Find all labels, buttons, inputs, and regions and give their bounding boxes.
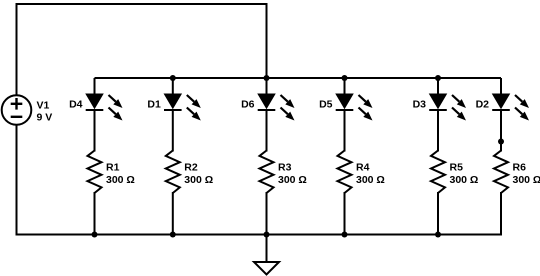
svg-text:D4: D4 [69, 99, 83, 111]
svg-text:D1: D1 [147, 99, 161, 111]
LED D3 [429, 94, 466, 121]
voltage source V1 [2, 95, 32, 125]
wire D6 anode lead [266, 78, 268, 95]
wire R1 bottom lead [94, 192, 96, 236]
wire R3 bottom lead [266, 192, 268, 236]
svg-text:300 Ω: 300 Ω [106, 174, 135, 186]
LED D1 [164, 94, 201, 121]
junction bottom bus x=438.0 [435, 232, 441, 238]
wire D3 cathode to R5 [437, 110, 439, 152]
wire center vertical drop [266, 3, 268, 78]
wire D1 cathode to R2 [172, 110, 174, 152]
resistor R6 [494, 151, 508, 194]
svg-text:9 V: 9 V [37, 112, 53, 124]
svg-text:R4: R4 [356, 162, 370, 174]
wire top bus [95, 77, 502, 79]
svg-text:300 Ω: 300 Ω [184, 174, 213, 186]
wire ground stem [266, 235, 268, 263]
LED D6 [258, 94, 295, 121]
svg-text:R5: R5 [450, 162, 464, 174]
svg-text:D3: D3 [413, 99, 427, 111]
svg-text:R6: R6 [513, 162, 527, 174]
svg-text:R3: R3 [278, 162, 292, 174]
resistor R3 [260, 151, 274, 194]
svg-text:R1: R1 [106, 162, 120, 174]
svg-text:D2: D2 [476, 99, 490, 111]
wire R4 bottom lead [344, 192, 346, 236]
LED D5 [336, 94, 373, 121]
junction bottom bus x=266.5 [264, 232, 270, 238]
wire D2 anode lead [500, 78, 502, 95]
wire D4 cathode to R1 [94, 110, 96, 152]
svg-text:D5: D5 [319, 99, 333, 111]
svg-text:300 Ω: 300 Ω [450, 174, 479, 186]
junction top bus x=172.8 [170, 75, 176, 81]
wire R5 bottom lead [437, 192, 439, 236]
wire D5 anode lead [344, 78, 346, 95]
LED D4 [86, 94, 123, 121]
svg-text:300 Ω: 300 Ω [513, 174, 540, 186]
resistor R4 [338, 151, 352, 194]
junction bottom bus x=344.5 [342, 232, 348, 238]
junction top bus x=438.0 [435, 75, 441, 81]
svg-text:R2: R2 [184, 162, 198, 174]
junction bottom bus x=172.8 [170, 232, 176, 238]
resistor R5 [431, 151, 445, 194]
wire D6 cathode to R3 [266, 110, 268, 152]
svg-text:300 Ω: 300 Ω [278, 174, 307, 186]
junction bottom bus x=94.5 [92, 232, 98, 238]
wire R6 bottom lead [500, 192, 502, 236]
wire D2 cathode to R6 [500, 110, 502, 152]
junction top bus x=344.5 [342, 75, 348, 81]
wire D5 cathode to R4 [344, 110, 346, 152]
wire R2 bottom lead [172, 192, 174, 236]
resistor R2 [166, 151, 180, 194]
wire top from V1 to center drop [17, 3, 267, 5]
wire D1 anode lead [172, 78, 174, 95]
svg-text:300 Ω: 300 Ω [356, 174, 385, 186]
resistor R1 [88, 151, 102, 194]
junction on D2/R6 branch [498, 139, 504, 145]
wire V1 positive lead (left vertical upper) [16, 3, 18, 95]
wire D3 anode lead [437, 78, 439, 95]
wire bottom bus [17, 234, 502, 236]
wire V1 negative lead (left vertical lower) [16, 125, 18, 236]
wire D4 anode lead [94, 78, 96, 95]
svg-text:V1: V1 [37, 100, 50, 112]
junction top bus x=266.5 [264, 75, 270, 81]
ground [254, 262, 279, 275]
svg-text:D6: D6 [241, 99, 255, 111]
LED D2 [492, 94, 529, 121]
